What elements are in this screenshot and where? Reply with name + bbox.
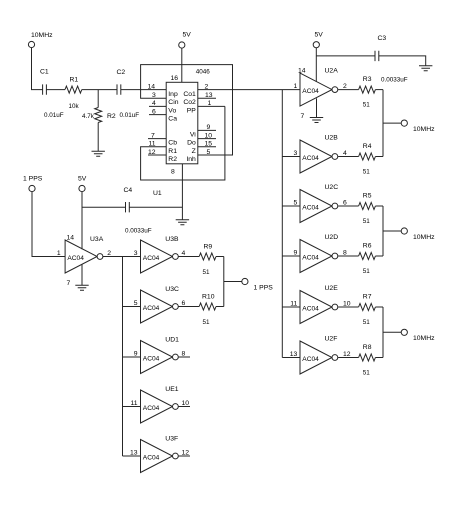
svg-text:Vo: Vo: [168, 107, 176, 114]
svg-text:AC04: AC04: [143, 355, 160, 362]
pin 12 R2: [148, 149, 177, 163]
op U3F inverter: [141, 436, 179, 473]
svg-text:6: 6: [343, 200, 347, 207]
svg-text:1 PPS: 1 PPS: [254, 285, 274, 292]
svg-text:R7: R7: [363, 294, 372, 301]
pin 11 (U2E in): [290, 301, 297, 308]
svg-text:Co1: Co1: [183, 91, 196, 98]
svg-text:R3: R3: [363, 76, 372, 83]
terminal 10MHz input: [28, 32, 53, 48]
svg-text:2: 2: [343, 83, 347, 90]
wire U3A gnd: [81, 264, 83, 285]
svg-text:AC04: AC04: [302, 88, 319, 95]
svg-text:10MHz: 10MHz: [413, 126, 435, 133]
svg-text:10: 10: [182, 400, 190, 407]
svg-text:51: 51: [363, 268, 371, 275]
terminal 10MHz output 2: [401, 228, 435, 241]
svg-text:9: 9: [207, 124, 211, 131]
wire: [82, 89, 117, 91]
svg-text:AC04: AC04: [302, 204, 319, 211]
op U2E inverter: [300, 285, 338, 324]
wire Cin-top-Inh feedback box: [141, 65, 233, 155]
wire: [338, 306, 359, 308]
op UE1 inverter: [141, 386, 179, 423]
wire U3A out to U3B in: [103, 256, 141, 258]
svg-text:AC04: AC04: [143, 454, 160, 461]
pin 8 (UD1 out): [182, 351, 186, 358]
svg-text:10: 10: [343, 301, 351, 308]
resistor R5: [359, 193, 383, 225]
svg-text:4: 4: [182, 250, 186, 257]
svg-text:U1: U1: [153, 190, 162, 197]
resistor R1: [65, 77, 82, 111]
svg-text:Vi: Vi: [190, 131, 196, 138]
svg-text:R2: R2: [168, 156, 177, 163]
svg-text:U3B: U3B: [165, 236, 179, 243]
pin 14 (U2A): [298, 68, 306, 75]
wire U2A gnd: [316, 98, 318, 117]
svg-text:Z: Z: [192, 148, 196, 155]
pin 3 (U2B in): [294, 150, 298, 157]
power 5V (U1): [179, 32, 192, 49]
svg-text:1: 1: [294, 83, 298, 90]
pin 6 (U2C out): [343, 200, 347, 207]
op U3A inverter: [65, 236, 104, 273]
terminal 10MHz output 3: [401, 329, 435, 342]
svg-text:C3: C3: [378, 35, 387, 42]
svg-text:15: 15: [205, 141, 213, 148]
wire junction pair 3: [383, 307, 401, 358]
op U2B inverter: [300, 135, 338, 174]
pin 4 (U3B out): [182, 250, 186, 257]
wire stub input U2B: [282, 156, 300, 158]
resistor R2: [82, 90, 116, 152]
pin 11 (UE1 in): [130, 400, 137, 407]
svg-text:7: 7: [67, 280, 71, 287]
svg-text:51: 51: [363, 101, 371, 108]
svg-text:AC04: AC04: [302, 356, 319, 363]
pin 14 Inp: [148, 83, 178, 98]
capacitor C2: [117, 69, 140, 119]
svg-text:51: 51: [363, 218, 371, 225]
pin 4 (U2B out): [343, 150, 347, 157]
svg-text:10MHz: 10MHz: [413, 234, 435, 241]
wire: [338, 357, 359, 359]
pin 15 Z: [192, 141, 216, 155]
wire junction R9-R10: [224, 257, 242, 307]
pin 2 Co1 + wire to U2A input: [183, 83, 300, 98]
svg-text:Inp: Inp: [168, 91, 178, 98]
svg-text:4.7k: 4.7k: [82, 113, 95, 120]
svg-text:C4: C4: [124, 187, 133, 194]
svg-text:0.0033uF: 0.0033uF: [381, 77, 408, 84]
svg-text:12: 12: [182, 450, 190, 457]
pin 12 (U2F out): [343, 351, 351, 358]
op UD1 inverter: [141, 337, 180, 374]
ground (U1 pin 8): [176, 220, 189, 225]
svg-text:14: 14: [67, 234, 75, 241]
svg-text:Inh: Inh: [186, 156, 196, 163]
svg-text:2: 2: [107, 250, 111, 257]
pin 16: [171, 75, 179, 82]
pin 6 Ca: [149, 108, 177, 122]
svg-text:U2E: U2E: [325, 285, 339, 292]
wire: [338, 255, 359, 257]
power 5V (U2A): [313, 32, 323, 48]
wire stub input U3C: [123, 306, 141, 308]
svg-text:R6: R6: [363, 243, 372, 250]
svg-text:R10: R10: [202, 294, 215, 301]
svg-text:51: 51: [203, 269, 211, 276]
pin 13 (U2F in): [290, 351, 298, 358]
op U2F inverter: [300, 336, 338, 375]
resistor R4: [359, 143, 383, 175]
svg-text:R8: R8: [363, 344, 372, 351]
svg-text:4: 4: [152, 100, 156, 107]
svg-text:R2: R2: [107, 113, 116, 120]
svg-text:10MHz: 10MHz: [31, 32, 53, 39]
pin 1 (U3A in): [57, 250, 61, 257]
svg-text:AC04: AC04: [143, 405, 160, 412]
svg-text:Cb: Cb: [168, 140, 177, 147]
capacitor C4: [82, 187, 182, 234]
svg-text:11: 11: [290, 301, 297, 308]
op U2A inverter: [300, 68, 338, 107]
svg-text:U3F: U3F: [165, 436, 178, 443]
svg-text:9: 9: [134, 351, 138, 358]
svg-text:14: 14: [298, 68, 306, 75]
svg-text:51: 51: [203, 319, 211, 326]
wire stub input U2C: [282, 205, 300, 207]
svg-text:4046: 4046: [196, 69, 211, 76]
pin 5 Inh: [186, 149, 210, 163]
svg-text:5V: 5V: [315, 32, 324, 39]
svg-text:R1: R1: [70, 77, 79, 84]
svg-text:10MHz: 10MHz: [413, 335, 435, 342]
svg-text:2: 2: [205, 83, 209, 90]
terminal 10MHz output 1: [401, 120, 435, 133]
svg-text:12: 12: [343, 351, 351, 358]
svg-text:0.0033uF: 0.0033uF: [125, 227, 152, 234]
svg-text:10k: 10k: [69, 103, 80, 110]
svg-text:7: 7: [151, 132, 155, 139]
pin 10 (UE1 out): [182, 400, 190, 407]
op U2D inverter: [300, 234, 338, 273]
svg-text:12: 12: [148, 149, 156, 156]
svg-text:0.01uF: 0.01uF: [44, 112, 64, 119]
pin 2 (U3A out): [107, 250, 111, 257]
resistor R10: [199, 294, 224, 327]
wire junction pair 2: [383, 206, 401, 256]
svg-text:3: 3: [152, 92, 156, 99]
svg-text:0.01uF: 0.01uF: [120, 112, 140, 119]
wire 1PPS to U3A input: [32, 192, 65, 257]
terminal 1 PPS input: [23, 176, 43, 192]
pin 3 (U3B in): [134, 250, 138, 257]
svg-text:3: 3: [294, 150, 298, 157]
wire: [178, 256, 199, 258]
svg-text:U2D: U2D: [325, 234, 339, 241]
wire stub input UE1: [123, 406, 141, 408]
svg-text:C1: C1: [40, 69, 49, 76]
svg-text:8: 8: [343, 250, 347, 257]
svg-text:8: 8: [182, 351, 186, 358]
svg-text:U3A: U3A: [90, 236, 104, 243]
svg-text:9: 9: [294, 250, 298, 257]
resistor R8: [359, 344, 383, 376]
wire stub output UE1: [178, 406, 190, 408]
svg-text:U2A: U2A: [325, 68, 339, 75]
svg-text:U2C: U2C: [325, 184, 339, 191]
wire: [338, 89, 359, 91]
svg-text:13: 13: [290, 351, 298, 358]
svg-text:5V: 5V: [78, 176, 87, 183]
pin 12 (U3F out): [182, 450, 190, 457]
svg-text:13: 13: [205, 92, 213, 99]
wire input bus (U3): [122, 257, 124, 457]
wire 5V to U2A pin14: [315, 48, 317, 82]
svg-text:AC04: AC04: [143, 255, 160, 262]
svg-text:5: 5: [294, 200, 298, 207]
svg-text:AC04: AC04: [67, 255, 84, 262]
pin 13 Co2: [183, 92, 216, 106]
svg-text:Ca: Ca: [168, 116, 177, 123]
pin 9 Vi: [190, 124, 216, 138]
wire stub input U3F: [123, 455, 141, 457]
wire 5V to U3A pin14: [81, 192, 83, 250]
svg-text:4: 4: [343, 150, 347, 157]
svg-text:U2B: U2B: [325, 135, 339, 142]
pin 6 (U3C out): [182, 300, 186, 307]
wire input bus (U2): [281, 90, 283, 358]
label U1: [153, 190, 162, 197]
pin 7 Cb: [148, 132, 177, 146]
capacitor C3: [316, 35, 425, 66]
ground (U3A): [75, 285, 88, 290]
wire: [338, 205, 359, 207]
svg-text:51: 51: [363, 369, 371, 376]
resistor R7: [359, 294, 383, 326]
resistor R9: [199, 244, 224, 277]
svg-text:6: 6: [152, 108, 156, 115]
wire R1-PP feedback box: [141, 106, 225, 180]
svg-text:Cin: Cin: [168, 99, 178, 106]
svg-text:R5: R5: [363, 193, 372, 200]
pin 7 (U2A): [301, 113, 305, 120]
svg-text:3: 3: [134, 250, 138, 257]
svg-text:AC04: AC04: [302, 254, 319, 261]
svg-text:UE1: UE1: [165, 386, 178, 393]
wire stub input U2F: [282, 357, 300, 359]
wire: [32, 48, 43, 90]
svg-text:14: 14: [148, 83, 156, 90]
svg-text:U3C: U3C: [165, 286, 179, 293]
pin 14 (U3A): [67, 234, 75, 241]
svg-text:R1: R1: [168, 148, 177, 155]
svg-text:13: 13: [130, 450, 138, 457]
pin 8 wire: [171, 164, 182, 220]
wire: [46, 89, 65, 91]
wire: [338, 156, 359, 158]
terminal 1 PPS output: [242, 278, 273, 291]
ground (C3): [419, 66, 432, 71]
pin 4 Vo: [149, 100, 176, 114]
wire stub input U2E: [282, 306, 300, 308]
pin 7 (U3A): [67, 280, 71, 287]
power 5V (U3A): [78, 176, 87, 192]
svg-text:51: 51: [363, 168, 371, 175]
svg-text:R9: R9: [204, 244, 213, 251]
svg-text:5: 5: [207, 149, 211, 156]
value label 0.0033uF: [381, 77, 408, 84]
svg-text:C2: C2: [117, 69, 126, 76]
wire: [178, 306, 199, 308]
wire: [121, 89, 166, 91]
svg-text:5V: 5V: [183, 32, 192, 39]
svg-text:6: 6: [182, 300, 186, 307]
pin 11 R1: [149, 141, 178, 155]
wire pin16: [181, 48, 183, 82]
pin 10 Do: [187, 132, 216, 146]
pin 3 Cin: [152, 92, 179, 106]
svg-text:11: 11: [130, 400, 137, 407]
op U2C inverter: [300, 184, 338, 223]
svg-text:10: 10: [205, 132, 213, 139]
wire stub output U3F: [178, 455, 190, 457]
svg-text:1: 1: [57, 250, 61, 257]
pin 1 PP: [187, 100, 225, 114]
svg-text:16: 16: [171, 75, 179, 82]
resistor R3: [359, 76, 383, 108]
pin 9 (UD1 in): [134, 351, 138, 358]
wire stub input U2D: [282, 255, 300, 257]
svg-text:Co2: Co2: [183, 99, 196, 106]
op U3C inverter: [141, 286, 179, 323]
svg-text:8: 8: [171, 169, 175, 176]
svg-text:PP: PP: [187, 107, 197, 114]
ground: [92, 151, 105, 156]
pin 9 (U2D in): [294, 250, 298, 257]
pin 2 (U2A out): [343, 83, 347, 90]
svg-text:7: 7: [301, 113, 305, 120]
svg-text:U2F: U2F: [325, 336, 338, 343]
pin 5 (U3C in): [134, 300, 138, 307]
wire junction pair 1: [383, 90, 401, 157]
pin 5 (U2C in): [294, 200, 298, 207]
svg-text:1 PPS: 1 PPS: [23, 176, 43, 183]
pin 8 (U2D out): [343, 250, 347, 257]
pin 13 (U3F in): [130, 450, 138, 457]
pin 1 (U2A in): [294, 83, 298, 90]
svg-text:AC04: AC04: [143, 305, 160, 312]
svg-text:5: 5: [134, 300, 138, 307]
svg-text:AC04: AC04: [302, 155, 319, 162]
ground (U2A): [310, 118, 323, 123]
svg-text:AC04: AC04: [302, 305, 319, 312]
pin 10 (U2E out): [343, 301, 351, 308]
wire stub input UD1: [123, 356, 141, 358]
svg-text:Do: Do: [187, 140, 196, 147]
capacitor C1: [40, 69, 64, 120]
resistor R6: [359, 243, 383, 275]
svg-text:UD1: UD1: [165, 337, 179, 344]
svg-text:51: 51: [363, 319, 371, 326]
wire stub output UD1: [178, 356, 190, 358]
IC U1 4046 body: [166, 69, 210, 164]
svg-text:R4: R4: [363, 143, 372, 150]
op U3B inverter: [141, 236, 179, 273]
svg-text:1: 1: [208, 100, 212, 107]
